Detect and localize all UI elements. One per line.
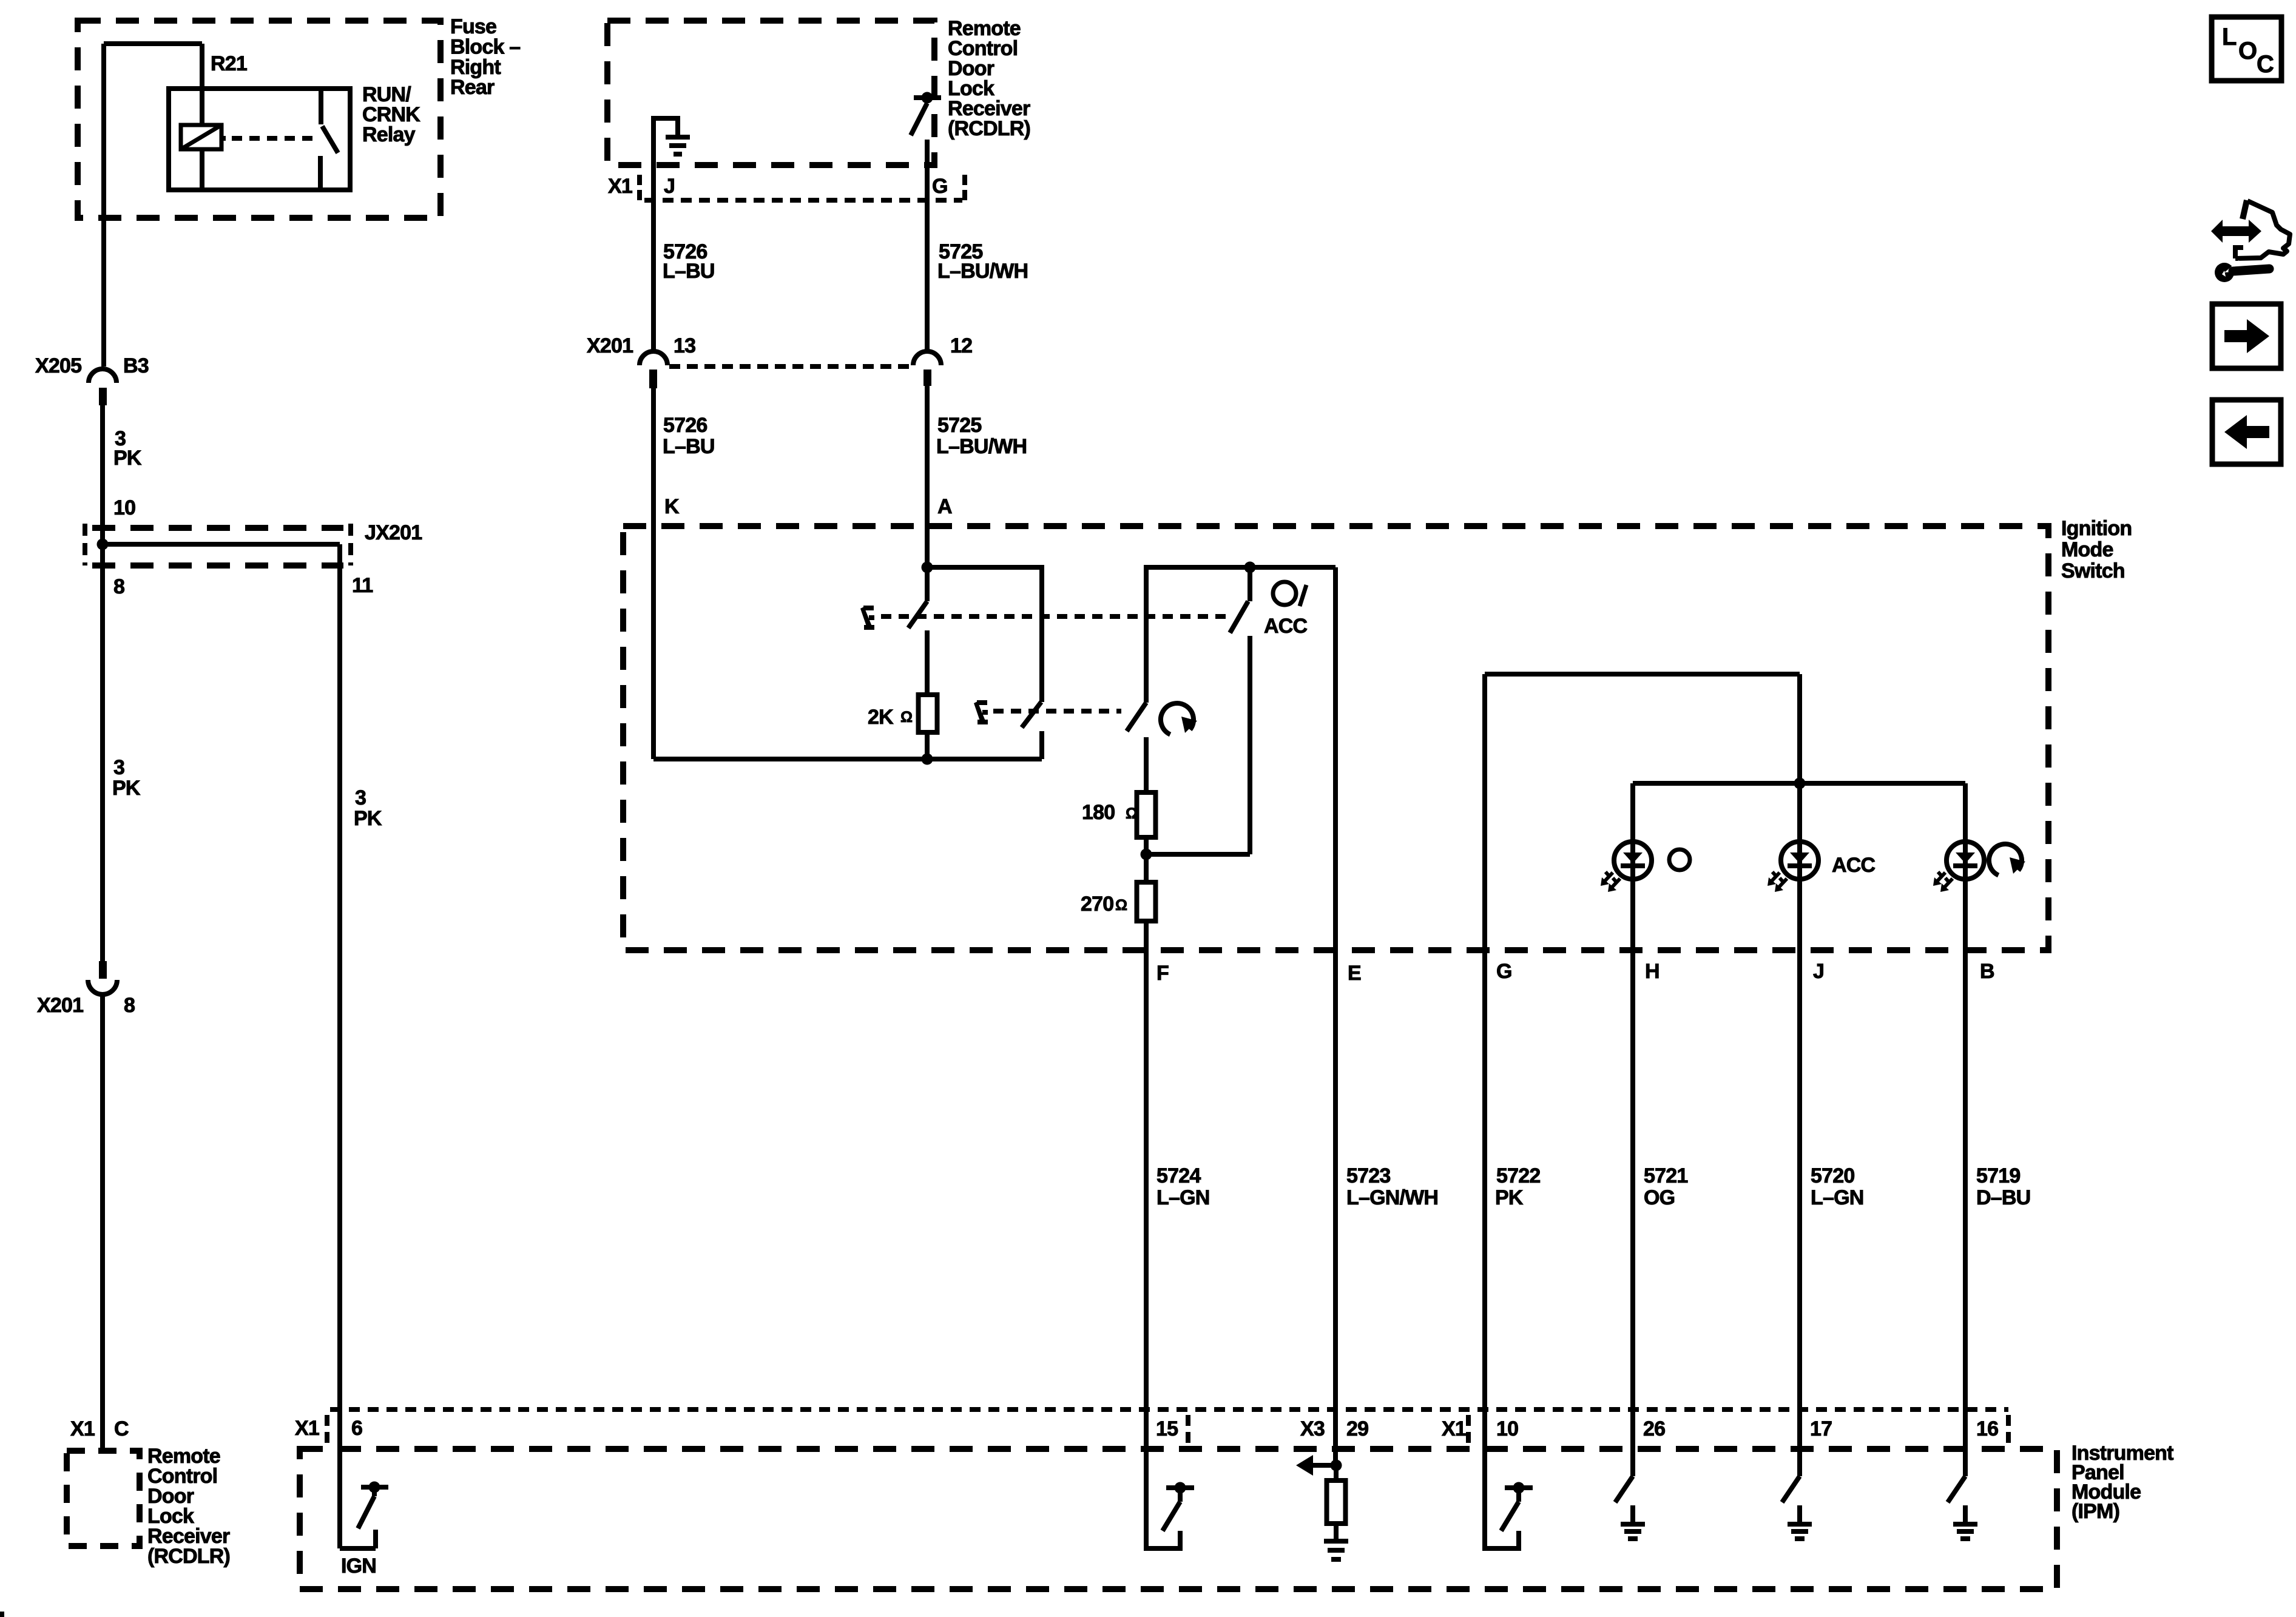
svg-text:X1: X1 [1442,1417,1466,1440]
IMS: second switch blade [1022,702,1041,727]
svg-text:B3: B3 [123,354,149,377]
svg-text:180: 180 [1082,801,1115,824]
switch at IPM pin 10 [1485,1449,1519,1548]
LED rail top [1485,672,1800,677]
ignition mode switch box [623,526,2048,950]
svg-text:L–BU/WH: L–BU/WH [936,435,1027,458]
svg-text:16: 16 [1976,1417,1998,1440]
svg-text:Ignition: Ignition [2061,517,2132,540]
connector X201 pin 8 [99,961,107,979]
svg-text:L–GN: L–GN [1156,1186,1209,1209]
node JX201 junction [97,539,109,550]
svg-text:ACC: ACC [1264,615,1308,638]
svg-text:11: 11 [352,574,373,597]
wire: battery feed into relay [101,44,106,366]
svg-text:ACC: ACC [1832,854,1876,877]
svg-text:X201: X201 [37,994,83,1017]
node A/switch junction [922,562,933,573]
svg-text:X3: X3 [1300,1417,1325,1440]
resistor 270 ohm [1144,854,1149,882]
svg-text:5723: 5723 [1346,1164,1390,1187]
switch to ground at pin 17 [1797,1449,1802,1476]
svg-text:R21: R21 [211,52,247,75]
ground inside RCDLR [653,118,678,353]
svg-text:12: 12 [950,334,972,357]
svg-text:F: F [1156,962,1169,985]
splice pack JX201 [83,524,87,565]
switch to ground at pin 16 [1963,1449,1968,1476]
mechanical link dashes (lower) [993,709,1121,714]
svg-text:C: C [114,1417,129,1440]
wire: JX201 to pin 11 branch [103,542,340,547]
svg-text:G: G [1496,960,1512,983]
wire G pin [1482,674,1487,1548]
svg-text:C: C [2257,51,2274,78]
relay R21 mechanical link [221,136,226,141]
LED rail lower [1633,781,1965,786]
node ACC pivot [1244,562,1256,573]
svg-text:5724: 5724 [1156,1164,1201,1187]
relay R21 switch [319,89,323,124]
svg-text:Ω: Ω [1126,805,1138,822]
svg-text:L–BU: L–BU [663,435,715,458]
svg-text:Mode: Mode [2061,538,2113,561]
ground at pin 29 [1324,1539,1348,1544]
wire 5725 L-BU/WH (lower) [925,386,930,528]
icon arrow right box [2212,304,2281,368]
resistor 2K ohm [919,695,937,732]
svg-text:6: 6 [351,1417,362,1440]
svg-text:5726: 5726 [663,414,707,437]
svg-text:Relay: Relay [362,123,416,146]
IMS: run/crank request switch blade [908,601,927,628]
svg-text:B: B [1980,960,1994,983]
mechanical link dashes (upper) [881,614,1231,619]
switch at RCDLR pin G [914,95,941,100]
svg-text:5721: 5721 [1644,1164,1687,1187]
wire F pin [1144,921,1149,1548]
svg-text:PK: PK [1495,1186,1524,1209]
switch IGN inside IPM [340,1546,376,1551]
svg-text:D–BU: D–BU [1976,1186,2030,1209]
svg-text:JX201: JX201 [365,521,422,544]
svg-text:PK: PK [113,447,142,470]
icon door with arrow and wrench [2211,220,2261,243]
wire 5726 L-BU (lower) [651,388,656,528]
switch to ground at pin 26 [1630,1449,1635,1476]
svg-text:8: 8 [124,994,135,1017]
svg-text:5719: 5719 [1976,1164,2020,1187]
svg-text:10: 10 [1496,1417,1518,1440]
svg-text:X201: X201 [587,334,633,357]
svg-text:8: 8 [113,575,124,598]
resistor 180 ohm [1137,792,1156,837]
icon arrow left box [2212,400,2281,464]
svg-text:X1: X1 [608,175,632,198]
svg-text:3: 3 [113,756,124,779]
node resistor bottom [922,754,933,765]
IPM connector dotted line [330,1407,2008,1412]
IMS: K wire and bottom rail [651,528,656,759]
connector X205 pin B3 [89,369,116,383]
icon LOC box [2212,17,2281,81]
IMS: bottom rail to ACC contact [1146,852,1250,857]
svg-text:G: G [932,175,948,198]
symbol rotary start arrow [1161,703,1194,734]
svg-text:O: O [2238,38,2257,64]
svg-text:Ω: Ω [1115,897,1127,914]
symbol OFF circle / [1273,582,1296,605]
svg-text:(IPM): (IPM) [2071,1500,2119,1523]
svg-text:X205: X205 [35,354,81,377]
svg-text:OG: OG [1644,1186,1675,1209]
resistor at pin 29 [1334,1465,1339,1480]
symbol OFF circle [1669,849,1690,870]
symbol rotary arrow (LED B) [1989,844,2022,875]
svg-text:(RCDLR): (RCDLR) [948,117,1030,140]
svg-text:Ω: Ω [900,709,913,726]
relay R21 coil [181,125,221,149]
IMS: upper branch to second switch [927,567,1042,702]
svg-text:270: 270 [1081,893,1113,916]
svg-text:J: J [1813,960,1824,983]
svg-text:10: 10 [113,496,135,519]
switch at IPM pin 15 [1146,1449,1180,1548]
svg-text:(RCDLR): (RCDLR) [147,1545,230,1568]
svg-text:L–GN: L–GN [1811,1186,1863,1209]
RCDLR bottom box [67,1451,140,1546]
svg-text:J: J [664,175,675,198]
svg-text:3: 3 [355,786,366,809]
icon wrench [2215,263,2234,282]
svg-text:A: A [937,495,952,518]
svg-text:H: H [1645,960,1660,983]
rotary start switch blade [1127,703,1146,731]
svg-text:K: K [664,495,680,518]
ACC switch blade [1230,601,1248,633]
svg-text:IGN: IGN [341,1555,376,1578]
IMS: A wire [925,528,930,601]
svg-text:5720: 5720 [1811,1164,1854,1187]
svg-text:5725: 5725 [937,414,981,437]
remote start bolt 1 [860,606,874,630]
wire 3 PK (upper) [100,405,105,961]
relay R21 box [169,89,350,190]
RCDLR top box [607,21,934,165]
svg-text:5722: 5722 [1496,1164,1540,1187]
svg-text:L–BU/WH: L–BU/WH [937,260,1028,283]
serial data arrow at pin 29 [1331,1460,1342,1471]
svg-text:Fuse: Fuse [450,15,496,38]
instrument panel module box [300,1449,2057,1589]
svg-text:29: 29 [1346,1417,1368,1440]
svg-text:Switch: Switch [2061,559,2125,582]
svg-text:17: 17 [1810,1417,1832,1440]
svg-text:X1: X1 [70,1417,95,1440]
svg-text:26: 26 [1643,1417,1665,1440]
remote start bolt 2 [974,700,988,724]
svg-text:L–BU: L–BU [663,260,715,283]
svg-text:PK: PK [354,807,382,830]
LED ACC indicator (pin J) [1797,783,1802,1476]
svg-text:13: 13 [674,334,695,357]
svg-text:2K: 2K [868,706,894,729]
fuse block - right rear (dashed box) [78,21,441,218]
IMS: right rail / ACC switch [1146,567,1335,703]
node 180/270 junction [1141,849,1152,860]
svg-text:E: E [1348,962,1361,985]
svg-text:PK: PK [112,777,141,800]
LED OFF indicator (pin H) [1630,783,1635,1476]
node LED rail junction [1794,778,1806,789]
svg-text:Rear: Rear [450,76,495,99]
svg-text:X1: X1 [295,1417,319,1440]
svg-text:L: L [2222,24,2237,50]
stray period bottom-left [0,1612,4,1617]
svg-text:L–GN/WH: L–GN/WH [1346,1186,1438,1209]
svg-text:15: 15 [1156,1417,1178,1440]
svg-text:Right: Right [450,56,501,79]
LED run indicator (pin B) [1963,783,1968,1476]
svg-text:Block –: Block – [450,35,520,58]
